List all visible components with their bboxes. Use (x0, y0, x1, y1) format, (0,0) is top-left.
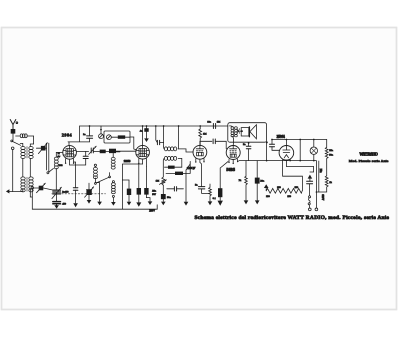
tube V4 internals (230, 146, 237, 158)
trimmer C2 (32, 183, 53, 193)
mains junction dot (316, 191, 318, 193)
padder cap C4 (53, 193, 61, 206)
svg-text:Mod. Piccolo serie Anie: Mod. Piccolo serie Anie (349, 159, 389, 163)
tube V3 envelope (193, 145, 207, 159)
dashed gang link (52, 193, 106, 195)
svg-text:35W4: 35W4 (277, 135, 285, 139)
cap C7 below wire (70, 151, 89, 165)
grid resistor R7 horizontal (165, 166, 182, 169)
input transformer T1 primary upper (21, 147, 25, 159)
antenna coupling block (11, 129, 16, 134)
junction dot (89, 125, 91, 127)
T1 bottom leads (13, 189, 33, 197)
trimmer C1 (36, 143, 47, 154)
osc trimmer circle A (99, 126, 104, 139)
chassis arrow left (6, 189, 9, 193)
svg-text:M: M (58, 153, 60, 155)
ground below V3 left (184, 164, 191, 206)
terminal E (11, 147, 14, 150)
switch chain top arrow (308, 175, 313, 182)
tuning gang C3a (52, 187, 62, 198)
T1 core lines (26, 147, 28, 192)
gang C3b (85, 183, 94, 200)
speaker box (228, 123, 267, 143)
volume ground cap C11 (161, 185, 166, 205)
resistor R12 dark (218, 162, 229, 206)
resistor R15 (316, 176, 328, 192)
tube V5 top lead (285, 140, 287, 146)
svg-text:600V: 600V (321, 194, 324, 200)
terminal bottom left (31, 187, 33, 189)
R5 below V2 (136, 163, 141, 207)
tube V2 pins (139, 158, 147, 166)
IF1 winding upper (164, 147, 176, 151)
HT to heater vertical (299, 140, 301, 161)
junction dot in box (241, 130, 243, 132)
tube V3 pins (196, 159, 204, 163)
coupling cap C10 horizontal (167, 187, 184, 191)
heater bus wire B (247, 161, 316, 209)
grid wires vertical pair (47, 143, 49, 171)
mains terminal right (315, 208, 318, 211)
T1 lower primary winding (21, 177, 25, 192)
svg-text:2x450: 2x450 (62, 191, 69, 194)
tube V2 internals (136, 145, 149, 156)
tube V5 envelope (279, 146, 294, 161)
IF1 rail right (177, 126, 179, 149)
T2 bottom lead to V4 plate (232, 136, 235, 145)
variable cap C6 (89, 146, 100, 154)
wire antenna to switch (12, 134, 14, 141)
cathode cap C15 (255, 161, 260, 205)
T2 top hook (230, 125, 233, 128)
speaker cone (250, 125, 257, 139)
osc coil L3 upper (111, 152, 120, 169)
band switch arm 2 (95, 173, 111, 185)
tube V2 envelope (136, 145, 150, 159)
filament string arrow (264, 184, 269, 191)
input transformer T1 secondary upper (29, 147, 33, 159)
tube V1 envelope (63, 146, 77, 160)
ground arrow gang C3b (87, 200, 92, 204)
coil L4 (112, 181, 116, 202)
box right edge drop (266, 142, 268, 160)
IF1 rail left (163, 126, 165, 147)
series cap on bus C12 (213, 124, 215, 129)
ground arrow L4 (111, 202, 116, 206)
osc trimmer circle B (107, 135, 112, 140)
tube V4 envelope (226, 146, 240, 160)
tube V5 internals (283, 146, 290, 158)
wire to bottom bus (31, 189, 33, 209)
HT wire A (272, 139, 327, 141)
top bus (80, 125, 228, 127)
V3 coupling to V4 (200, 139, 227, 149)
osc coil L3 lower (93, 166, 97, 182)
box to tube V2 wire (130, 137, 136, 150)
tube V1 internals (63, 146, 76, 157)
svg-text:3W: 3W (152, 193, 156, 196)
V2 pin to bus lead (122, 164, 142, 209)
heater wire C (286, 160, 313, 172)
mid coupling wire V1-V2 (76, 150, 88, 152)
output transformer T2 secondary (234, 127, 237, 137)
filament string resistor R16 (266, 188, 302, 193)
V4 pin wires (237, 161, 247, 162)
pilot lamp LP1 (310, 139, 317, 162)
switch S2 (308, 184, 311, 208)
RF choke L1 (16, 134, 34, 144)
T1 upper leads (20, 143, 33, 146)
ground arrow below padder (54, 205, 59, 209)
heater link vertical (318, 161, 320, 192)
svg-text:12SQ7: 12SQ7 (187, 166, 196, 170)
wire earth lead (9, 150, 13, 192)
V1 grid top lead (68, 142, 70, 146)
R6 below V2 (144, 166, 152, 205)
resistor R2 (100, 150, 109, 154)
screen resistor R13 (244, 161, 249, 205)
tube V4 pins (229, 159, 237, 163)
svg-text:Schema elettrico del radiorice: Schema elettrico del radioricevitore WAT… (195, 215, 390, 221)
R4 below V2 (122, 180, 131, 205)
dropper resistor R14 (325, 140, 328, 176)
antenna (10, 120, 18, 130)
IF1 winding lower (164, 156, 176, 160)
T2 core cross (237, 129, 240, 134)
T1 vertical links (23, 158, 31, 176)
V1 left lead (56, 151, 63, 153)
screen cap C14 (246, 142, 251, 160)
oscillator box (104, 131, 130, 143)
osc resistor R1 (111, 135, 130, 138)
cathode coil L2 (54, 152, 58, 190)
resistor R3 (109, 149, 136, 153)
tube V3 internals (196, 145, 203, 155)
osc ground stem (95, 183, 102, 206)
tube V1 pins (66, 159, 74, 165)
output transformer T2 primary (231, 127, 234, 137)
switch contact lower (47, 168, 54, 173)
T1 lower secondary winding (29, 177, 33, 192)
tube V2 top lead (142, 126, 144, 145)
mains terminal left (308, 208, 311, 211)
filter cap C16 (270, 139, 280, 151)
speaker driver (238, 127, 249, 137)
svg-text:4w: 4w (57, 156, 60, 158)
switch chain cap (307, 181, 313, 184)
svg-text:12SA8: 12SA8 (124, 159, 131, 163)
AF resistor R8 horizontal (166, 161, 190, 175)
svg-text:WATT RADIO: WATT RADIO (359, 153, 378, 157)
V1 cathode chain (73, 162, 78, 207)
AVC cap C8 (144, 126, 149, 142)
tube V5 pins (283, 160, 303, 191)
svg-text:250V: 250V (149, 210, 155, 213)
osc coil terminal (94, 164, 96, 166)
IF1 winding lower leads (163, 158, 182, 177)
resistor R11 zigzag vertical (208, 184, 213, 205)
grid capacitor C5 (87, 126, 93, 142)
IF feed cap C9 (156, 126, 164, 145)
cap C13 below V3 (198, 162, 210, 193)
IF1 winding upper leads (164, 147, 194, 152)
band switch SW1 (11, 140, 21, 145)
volume control R9 (159, 177, 166, 185)
grid leak resistor R10 vertical above V3 (199, 126, 202, 145)
svg-text:50B5: 50B5 (226, 168, 235, 172)
bus left corner down (68, 126, 90, 142)
svg-text:2904: 2904 (62, 132, 73, 137)
bottom bus (32, 205, 157, 209)
